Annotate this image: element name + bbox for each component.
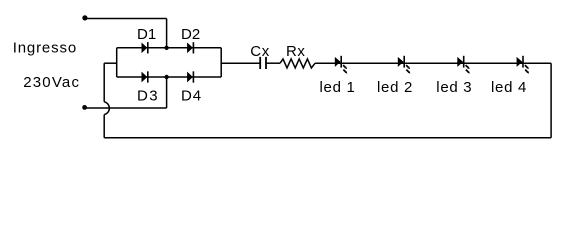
- svg-text:led 3: led 3: [436, 79, 472, 96]
- terminal dot bottom (input 2): [82, 105, 87, 110]
- wire Rx to led1: [315, 62, 341, 64]
- wire bridge left mid stub: [104, 62, 117, 64]
- wire bottom return: [104, 137, 551, 139]
- wire led3 to led4: [464, 62, 523, 64]
- wire input2 vertical: [166, 77, 168, 108]
- diode D4: [187, 71, 193, 82]
- svg-text:led 4: led 4: [491, 79, 527, 96]
- LED led2: [398, 56, 411, 74]
- svg-text:D4: D4: [181, 88, 202, 105]
- wire bridge left edge: [116, 48, 118, 77]
- svg-text:Ingresso: Ingresso: [13, 40, 77, 57]
- node bridge top junction: [164, 46, 168, 50]
- capacitor Cx: [260, 57, 266, 69]
- LED led1: [335, 56, 348, 74]
- wire input1 vertical: [166, 19, 168, 48]
- svg-text:led 1: led 1: [320, 79, 356, 96]
- svg-text:Cx: Cx: [250, 43, 270, 60]
- svg-text:D1: D1: [137, 26, 156, 43]
- wire bridge output to Cx: [221, 62, 260, 64]
- LED led3: [457, 56, 470, 74]
- wire led4 to right edge: [523, 62, 551, 64]
- wire input1 horizontal: [85, 18, 167, 20]
- wire input2 horizontal: [85, 107, 167, 109]
- diode D3: [142, 71, 148, 82]
- wire Cx to Rx: [266, 62, 280, 64]
- wire led2 to led3: [404, 62, 464, 64]
- svg-text:D3: D3: [137, 88, 159, 105]
- wire left vertical upper: [103, 63, 105, 102]
- svg-text:230Vac: 230Vac: [23, 74, 80, 91]
- terminal dot top (input 1): [82, 15, 87, 20]
- LED led4: [517, 56, 530, 74]
- svg-text:Rx: Rx: [286, 43, 306, 60]
- svg-text:D2: D2: [181, 26, 200, 43]
- svg-text:led 2: led 2: [377, 79, 413, 96]
- diode D1: [142, 42, 148, 53]
- node bridge bottom junction: [164, 75, 168, 79]
- wire bridge top rail: [117, 47, 222, 49]
- wire hop over input2 wire: [104, 102, 109, 115]
- resistor Rx: [280, 59, 315, 68]
- diode D2: [187, 42, 193, 53]
- wire right vertical: [550, 63, 552, 138]
- wire led1 to led2: [341, 62, 404, 64]
- wire bridge right edge: [220, 48, 222, 77]
- wire bridge bottom rail: [117, 76, 222, 78]
- wire left vertical lower: [103, 115, 105, 138]
